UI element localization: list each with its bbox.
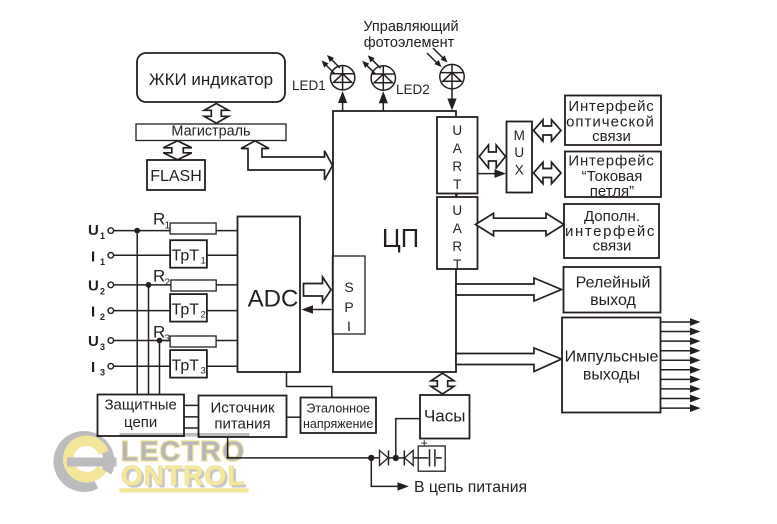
svg-text:Релейный: Релейный <box>576 275 651 292</box>
svg-text:LED1: LED1 <box>292 78 326 93</box>
svg-text:Интерфейс: Интерфейс <box>568 153 654 170</box>
wire <box>413 457 418 459</box>
svg-text:напряжение: напряжение <box>303 417 373 431</box>
svg-text:ТрТ: ТрТ <box>172 358 200 375</box>
svg-text:цепи: цепи <box>124 414 157 431</box>
svg-text:связи: связи <box>592 128 631 145</box>
input terminal U2 <box>88 278 114 297</box>
svg-text:R: R <box>153 323 165 342</box>
svg-text:R: R <box>153 267 165 286</box>
svg-text:S: S <box>344 279 353 295</box>
wire to power circuit <box>371 458 409 491</box>
svg-text:A: A <box>453 221 462 236</box>
svg-text:ONTROL: ONTROL <box>121 460 247 491</box>
big e gray ring <box>53 431 114 492</box>
input terminal I1 <box>91 249 114 268</box>
svg-text:выходы: выходы <box>583 367 640 384</box>
box bus Магистраль <box>136 124 286 141</box>
fat arrow ADC-SPI <box>304 277 332 303</box>
svg-text:В цепь питания: В цепь питания <box>414 479 527 496</box>
wires protection-power <box>184 405 199 428</box>
transformer TrT1 <box>170 240 207 268</box>
wire I2 <box>114 310 238 312</box>
svg-text:R: R <box>452 239 462 254</box>
input terminal U1 <box>88 222 114 241</box>
double arrow MUX-current-loop <box>534 162 562 183</box>
wires to protection box <box>137 231 159 395</box>
double arrow CPU-clock <box>431 373 454 394</box>
ADC box <box>238 217 301 373</box>
box relay output <box>564 267 661 313</box>
svg-text:X: X <box>515 163 524 178</box>
svg-text:R: R <box>452 159 462 174</box>
wire LED1 arrow up <box>338 91 347 112</box>
box aux interface <box>564 204 659 258</box>
wire U3 <box>114 340 238 342</box>
svg-text:1: 1 <box>100 257 105 267</box>
svg-text:ЖКИ индикатор: ЖКИ индикатор <box>149 70 273 89</box>
svg-text:Источник: Источник <box>210 400 274 417</box>
svg-text:1: 1 <box>201 256 206 267</box>
svg-text:I: I <box>91 359 95 376</box>
box clock Часы <box>420 395 470 439</box>
wire clock tap <box>396 419 420 458</box>
svg-text:A: A <box>453 141 462 156</box>
wire I1 <box>114 254 238 256</box>
resistor R2 <box>171 280 216 291</box>
svg-text:ADC: ADC <box>248 286 299 313</box>
fat arrow CPU-relay <box>456 278 562 301</box>
svg-text:связи: связи <box>593 238 632 255</box>
svg-text:U: U <box>88 278 99 295</box>
svg-text:3: 3 <box>201 366 206 377</box>
svg-text:R: R <box>153 210 165 229</box>
transformer TrT3 <box>170 350 207 378</box>
box protection Защитные цепи <box>98 395 185 437</box>
wire U2 <box>114 284 238 286</box>
LED1 <box>322 55 355 90</box>
resistor R3 <box>170 336 216 347</box>
svg-text:1: 1 <box>100 231 105 241</box>
svg-text:U: U <box>452 123 462 138</box>
svg-text:Импульсные: Импульсные <box>565 349 659 366</box>
label photo element <box>363 19 458 51</box>
svg-text:U: U <box>88 333 99 350</box>
box current loop interface <box>565 152 661 201</box>
pulse output arrows <box>661 318 701 412</box>
svg-text:3: 3 <box>100 342 105 352</box>
svg-text:T: T <box>453 177 461 192</box>
double arrow MUX-optical <box>534 120 562 141</box>
wire U1 <box>114 230 238 232</box>
resistor R1 <box>170 223 216 234</box>
svg-text:T: T <box>453 257 461 272</box>
wire power-reference <box>287 416 301 418</box>
svg-text:2: 2 <box>165 278 171 289</box>
wire LED2 arrow up <box>379 91 388 111</box>
double arrow UART2-aux <box>476 213 565 235</box>
wire power source down <box>227 437 229 458</box>
svg-text:2: 2 <box>100 312 105 322</box>
gray top bar <box>120 433 250 437</box>
LED2 <box>362 55 395 90</box>
svg-text:2: 2 <box>201 310 206 321</box>
bent double arrow bus-CPU <box>241 141 333 180</box>
svg-text:Магистраль: Магистраль <box>171 124 250 140</box>
svg-text:Защитные: Защитные <box>104 397 176 414</box>
svg-text:1: 1 <box>165 221 171 232</box>
big e crossbar <box>67 458 117 467</box>
watermark logo ElectroControl <box>53 431 249 493</box>
svg-text:ЦП: ЦП <box>382 225 419 253</box>
svg-text:FLASH: FLASH <box>150 168 202 185</box>
CPU box <box>333 111 456 372</box>
thin arrow UART1-MUX <box>478 169 506 178</box>
svg-text:Управляющий: Управляющий <box>363 19 458 35</box>
svg-text:U: U <box>88 222 99 239</box>
svg-text:ТрТ: ТрТ <box>172 248 200 265</box>
junction U2 <box>146 282 152 288</box>
UART1 box <box>437 117 478 194</box>
wire power rail <box>227 457 380 459</box>
svg-text:Интерфейс: Интерфейс <box>568 98 654 115</box>
svg-text:3: 3 <box>100 368 105 378</box>
junction power rail <box>368 455 374 461</box>
diode VD2 <box>404 450 413 465</box>
box pulse outputs <box>562 318 661 413</box>
svg-text:U: U <box>514 145 524 160</box>
svg-text:питания: питания <box>214 416 270 433</box>
svg-text:3: 3 <box>165 334 171 345</box>
transformer TrT2 <box>170 294 207 322</box>
svg-text:Часы: Часы <box>424 407 466 426</box>
input terminal U3 <box>88 333 114 352</box>
svg-text:I: I <box>91 249 95 266</box>
input terminal I3 <box>91 359 114 378</box>
svg-text:I: I <box>91 304 95 321</box>
double arrow bus-FLASH <box>163 141 192 160</box>
svg-text:фотоэлемент: фотоэлемент <box>364 35 455 51</box>
photo element D3 <box>427 48 464 89</box>
box FLASH <box>147 160 205 190</box>
wire between UARTs <box>456 194 458 198</box>
battery box <box>418 436 445 471</box>
svg-text:LED2: LED2 <box>396 82 430 97</box>
wire I3 <box>114 365 238 367</box>
wire <box>389 457 405 459</box>
svg-text:U: U <box>452 203 462 218</box>
svg-text:выход: выход <box>590 292 636 309</box>
MUX box <box>507 122 533 193</box>
fat arrow CPU-pulse <box>456 348 562 372</box>
svg-text:I: I <box>347 318 351 334</box>
UART2 box <box>437 197 478 272</box>
svg-text:Эталонное: Эталонное <box>306 402 370 416</box>
svg-text:2: 2 <box>100 287 105 297</box>
svg-text:M: M <box>514 128 525 143</box>
box reference voltage <box>301 398 377 434</box>
svg-text:петля”: петля” <box>590 183 634 200</box>
double arrow LCD-bus <box>204 104 228 124</box>
junction U1 <box>134 228 140 234</box>
double arrow UART1-MUX <box>479 145 505 168</box>
yellow underline bar <box>120 488 249 492</box>
big e yellow ring <box>63 435 109 482</box>
junction U3 <box>157 338 163 344</box>
box LCD indicator <box>137 53 285 102</box>
junction clock tap <box>393 455 399 461</box>
diode VD1 <box>380 450 389 465</box>
wire ADC-reference <box>287 372 332 398</box>
svg-text:ТрТ: ТрТ <box>172 302 200 319</box>
svg-text:+: + <box>421 436 428 450</box>
wire photo arrow down <box>447 89 456 111</box>
box power source Источник питания <box>199 396 287 438</box>
input terminal I2 <box>91 304 114 323</box>
svg-text:P: P <box>344 299 353 315</box>
box optical interface <box>565 96 661 146</box>
thin arrow SPI-ADC <box>302 305 332 314</box>
SPI box <box>333 256 366 334</box>
